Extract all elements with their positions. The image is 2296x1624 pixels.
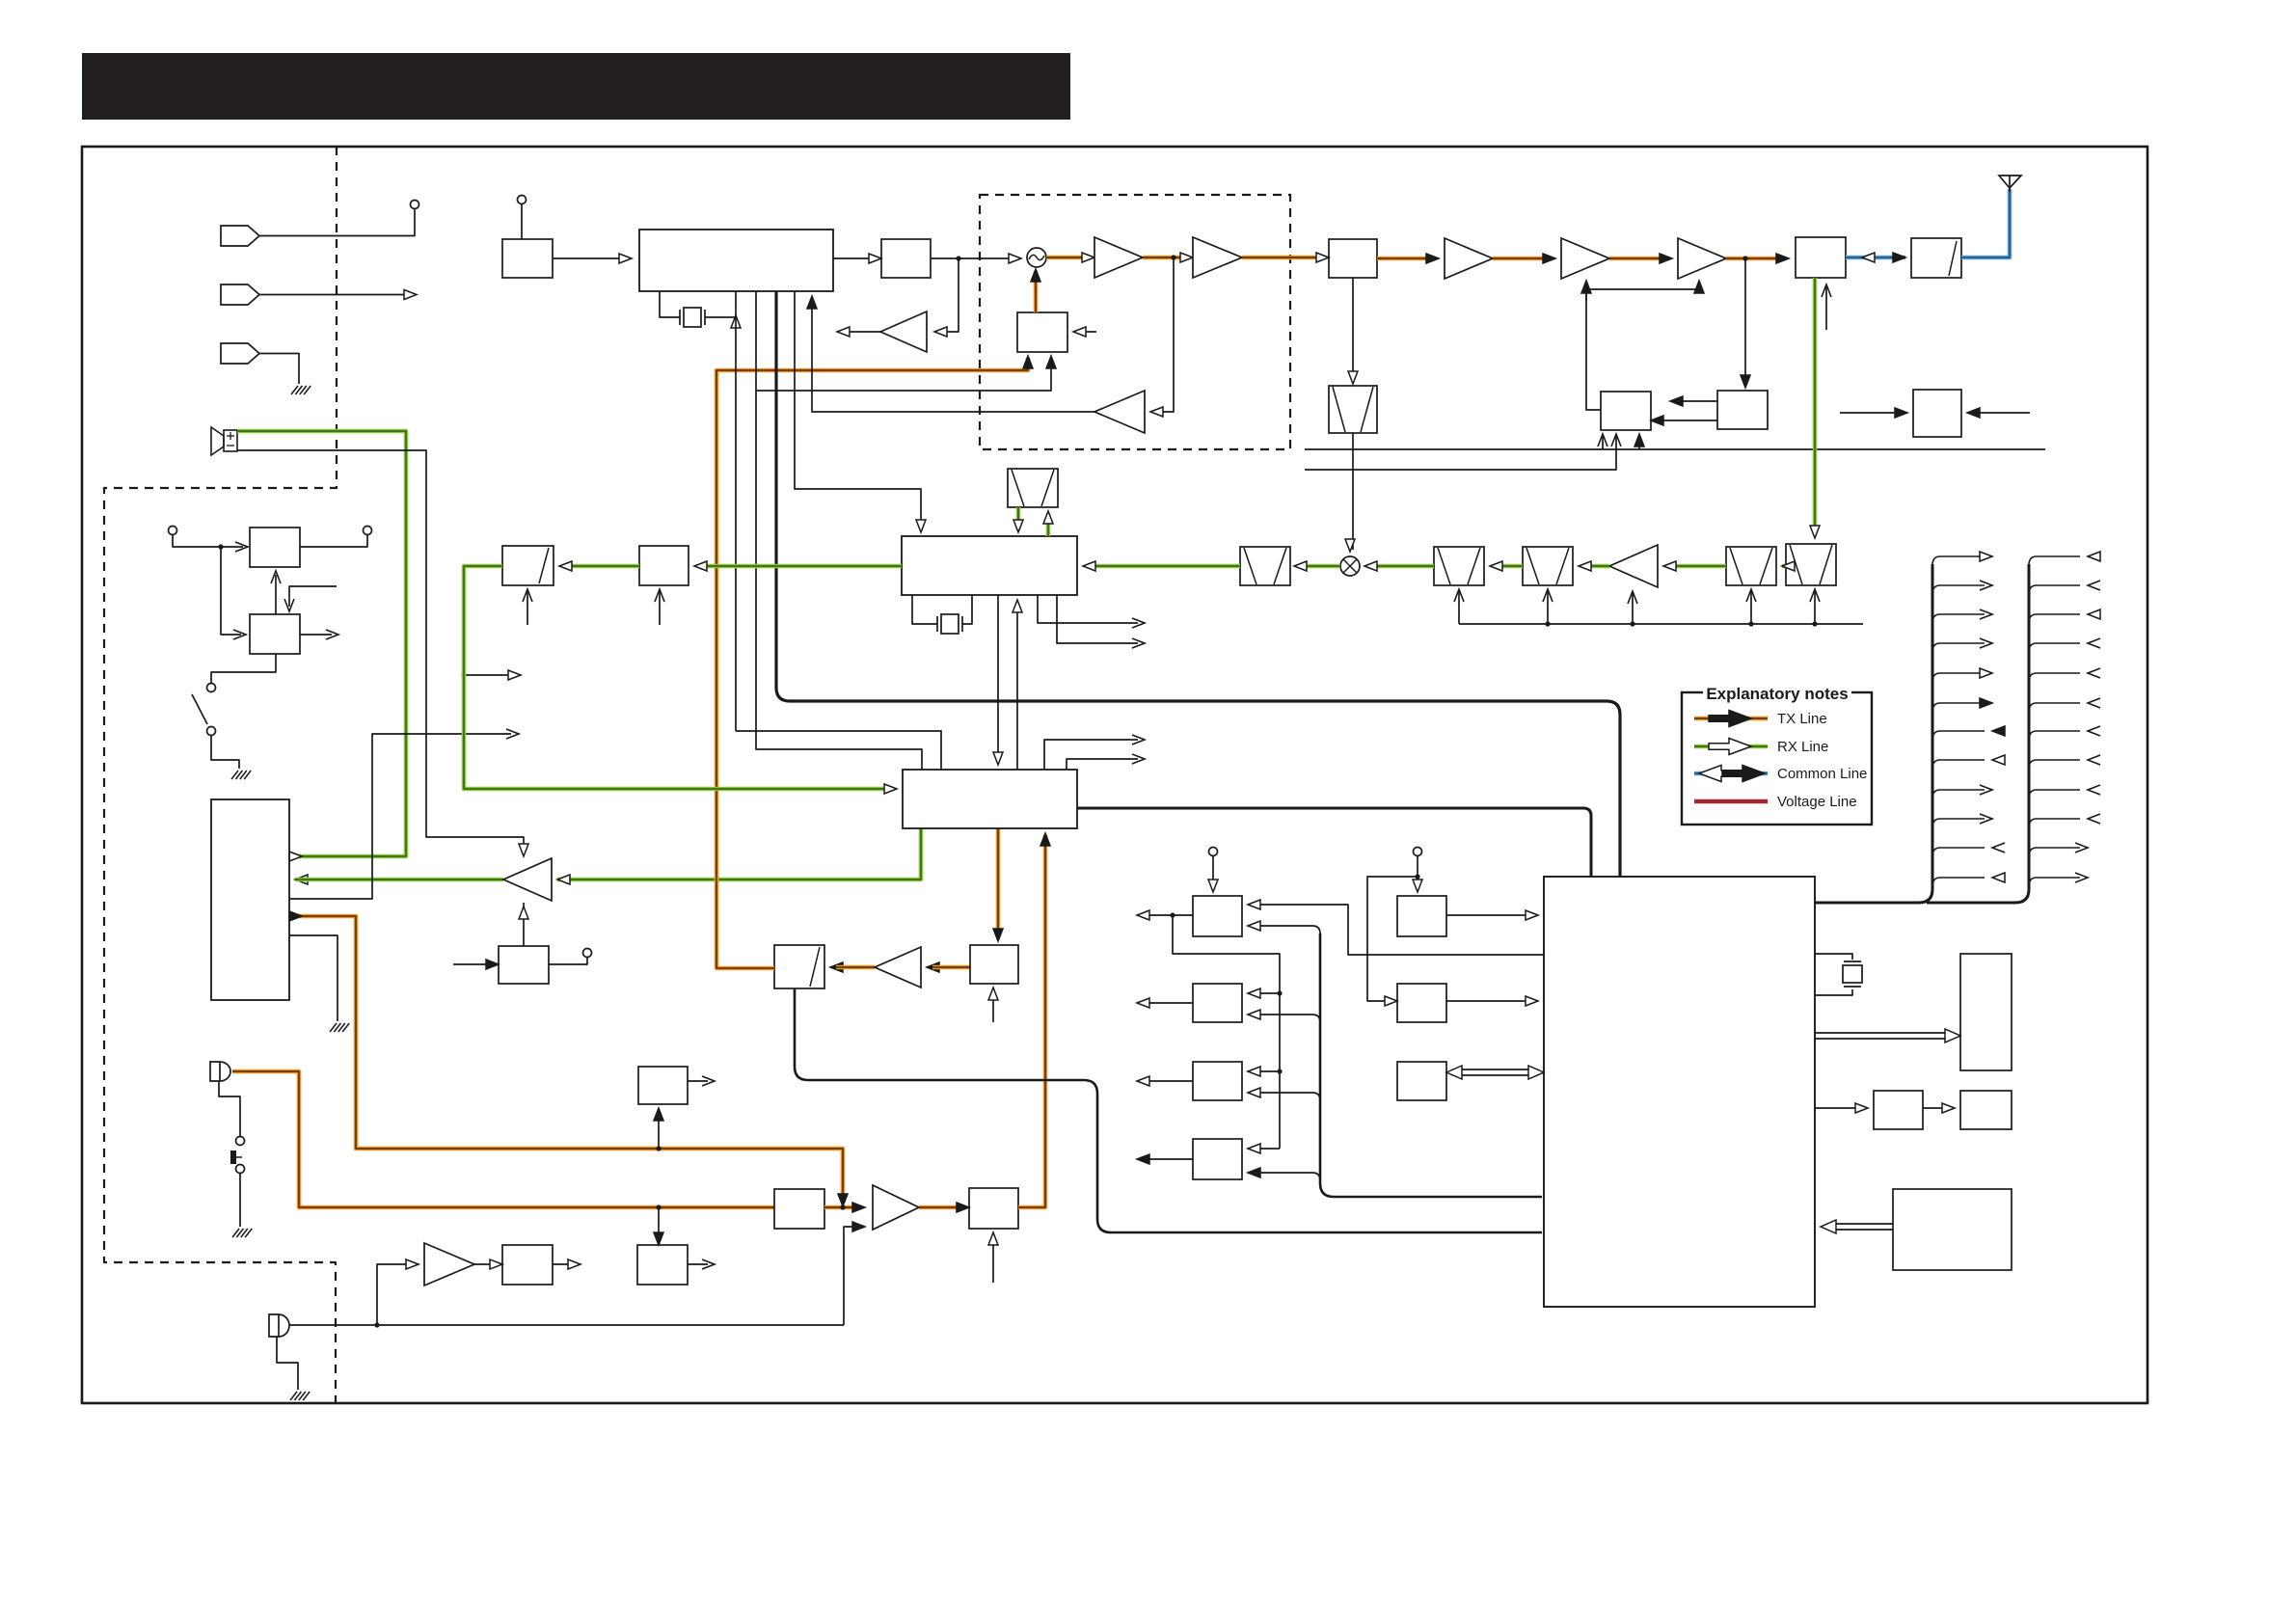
wire amp4 bias bbox=[1585, 283, 1587, 301]
box baseband U16 bbox=[903, 770, 1077, 828]
arrow limiter ctl bbox=[988, 1232, 998, 1245]
arrow beat into summer bbox=[852, 1222, 865, 1232]
arrow temp stub bbox=[1967, 408, 1980, 418]
arrow into monitor amp bbox=[934, 327, 947, 337]
box RX filterA (trapezoid) bbox=[1240, 547, 1290, 585]
wire mixer to filterA (green) bbox=[1302, 564, 1340, 569]
key bus branch L3 bbox=[1248, 1093, 1320, 1100]
junction TX sense bbox=[1171, 255, 1175, 259]
svg-text:Voltage Line: Voltage Line bbox=[1777, 794, 1857, 810]
wire buffer branch down bbox=[934, 258, 959, 332]
io bus left branch 8 bbox=[1932, 760, 1985, 769]
arrow volume in bbox=[486, 960, 499, 969]
amp4 bias arrow bbox=[1581, 281, 1591, 293]
box APC det U8b bbox=[1717, 391, 1768, 429]
wire beat from mic2 bbox=[844, 1227, 859, 1325]
wire limiter2 to mod amp (orange) bbox=[932, 965, 970, 970]
arrow DET stub bbox=[506, 729, 519, 739]
wire volume in bbox=[453, 963, 493, 965]
wire osc ctl (orange) bbox=[1034, 271, 1039, 312]
PTT button bbox=[230, 1150, 236, 1164]
ground CN3 bbox=[291, 386, 298, 394]
box reset R1 bbox=[1397, 896, 1446, 936]
amp1 triangle Q4 bbox=[1094, 237, 1143, 278]
io bus left branch 1 bbox=[1932, 556, 1985, 565]
wire crystal to v1 bbox=[705, 316, 736, 318]
oscillator OSC1 bbox=[1027, 248, 1046, 267]
arrow v2 into PLL ctl bbox=[1046, 356, 1056, 368]
arrow L1 out bbox=[1137, 910, 1149, 920]
terminal circle ref bbox=[518, 196, 527, 204]
junction bbox=[218, 544, 223, 549]
wire v2 main IC to baseband bbox=[756, 291, 922, 770]
io bus right branch 9 bbox=[2029, 790, 2080, 798]
wire main IC to crystal bbox=[660, 291, 680, 317]
junction dtmf on orange bbox=[656, 1204, 661, 1209]
terminal circle CN1 bbox=[411, 201, 419, 209]
arrow L2 out bbox=[1137, 998, 1149, 1008]
io bus left branch 5 bbox=[1932, 673, 1985, 682]
wire buffer to oscillator bbox=[931, 257, 1015, 259]
wire baseband to U18 (orange) bbox=[996, 828, 1001, 937]
arrow L4 out bbox=[1137, 1154, 1149, 1164]
wire monitor amp out bbox=[843, 331, 880, 333]
wire amp5 to TX out (orange) bbox=[1726, 257, 1783, 261]
wire IF det out (green) bbox=[700, 564, 902, 569]
arrow volume into driver bbox=[519, 907, 528, 919]
wire mic1 (orange TX audio) bbox=[232, 1071, 774, 1207]
arrow osc ctl bbox=[1031, 269, 1040, 282]
box limiter U21 bbox=[969, 1188, 1018, 1229]
crystal X2 bbox=[936, 616, 938, 632]
wire key dist to L3 bbox=[1277, 1069, 1282, 1073]
wire L3 out bbox=[1143, 1080, 1193, 1082]
wire osc to amp1 (orange) bbox=[1046, 256, 1089, 260]
arrow into TX out box bbox=[1776, 254, 1789, 263]
title bar bbox=[82, 53, 1070, 120]
io bus right branch 12 bbox=[2029, 878, 2080, 886]
arrow into amp1 bbox=[1082, 253, 1094, 262]
wire AF driver bottom to volume box bbox=[523, 903, 525, 946]
arrow U11 out bbox=[326, 630, 338, 639]
box volume U12 bbox=[499, 946, 549, 984]
box U11 bbox=[250, 614, 300, 654]
box mod filter U19 (slash) bbox=[774, 945, 824, 988]
arrow baseband to IF bbox=[1013, 600, 1022, 612]
io bus right branch 6 bbox=[2029, 703, 2080, 712]
wire to U11 bbox=[221, 547, 241, 635]
box RX filterB (trapezoid) bbox=[1434, 547, 1484, 585]
arrow into U22 bbox=[490, 1259, 502, 1269]
wire E to D (green) bbox=[1782, 564, 1786, 569]
box RX filterC (trapezoid) bbox=[1523, 547, 1573, 585]
microphone MC2 bbox=[269, 1314, 289, 1337]
arrow U18 ctl bbox=[988, 988, 998, 1000]
microphone MC1 bbox=[210, 1062, 230, 1081]
antenna ANT1 bbox=[1999, 176, 2021, 188]
arrow into filterB bbox=[1490, 561, 1502, 571]
wire key bus (thick) bbox=[1320, 934, 1542, 1197]
ground AF block bbox=[330, 1023, 337, 1032]
box LED bbox=[1960, 1091, 2012, 1129]
arrow into amp5 bbox=[1660, 254, 1672, 263]
wire CN2 out bbox=[259, 294, 409, 296]
legend Voltage line sample bbox=[1694, 799, 1768, 804]
wire L4 out bbox=[1143, 1158, 1193, 1160]
bus battery-CPU bbox=[1830, 1223, 1893, 1225]
wire TX sense down bbox=[1156, 257, 1174, 412]
RX 8V rail bbox=[1459, 623, 1863, 625]
wire amp2 to bpf (orange) bbox=[1242, 256, 1323, 260]
io bus right branch 4 bbox=[2029, 643, 2080, 652]
box temp sensor U8c bbox=[1913, 390, 1961, 437]
box U10 bbox=[250, 528, 300, 567]
arrow into mod amp bbox=[927, 962, 939, 972]
wire tone gen out bbox=[688, 1080, 708, 1082]
wire CPU to driver bbox=[1815, 1107, 1862, 1109]
arrow into filterC bbox=[1579, 561, 1591, 571]
wire APC det to amp 1 bbox=[1676, 400, 1717, 402]
box PLL ctl U4 bbox=[1017, 312, 1067, 352]
wire dtmf feed bbox=[658, 1207, 660, 1241]
switch S1 lever bbox=[192, 694, 207, 724]
arrow mute into AF amp bbox=[519, 844, 528, 856]
AF driver triangle Q30 bbox=[503, 858, 552, 901]
summing amp triangle Q21 bbox=[873, 1185, 919, 1230]
arrow into U11 bbox=[233, 630, 246, 639]
key bus branch L1 bbox=[1248, 926, 1320, 934]
arrow TX out ctl bbox=[1822, 284, 1831, 297]
arrow scan into L1 bbox=[1248, 900, 1260, 909]
wire amp to mod filter (orange) bbox=[836, 965, 875, 970]
box TX buffer U3 bbox=[881, 239, 931, 278]
wire switch to ground bbox=[211, 736, 239, 769]
svg-text:Explanatory notes: Explanatory notes bbox=[1706, 685, 1848, 703]
arrow into amp2 bbox=[1180, 253, 1193, 262]
terminal circle volume bbox=[583, 949, 592, 958]
wire TX out ctl bbox=[1825, 286, 1827, 330]
rail stub rx amp bbox=[1630, 621, 1634, 626]
box battery pack bbox=[1893, 1189, 2012, 1270]
legend title mask bbox=[1703, 683, 1851, 703]
arrow into filterD bbox=[1782, 561, 1795, 571]
arrow PLL ctl stub bbox=[1073, 327, 1086, 337]
arrow crystal junction bbox=[731, 315, 741, 328]
wire baseband out stub1 bbox=[1044, 740, 1138, 770]
junction L1 out bbox=[1170, 912, 1175, 917]
arrow PLL fb into main IC bbox=[807, 296, 817, 309]
wire main IC out bbox=[833, 257, 876, 259]
wire filterA to IF IC (green) bbox=[1089, 564, 1240, 569]
connector tag CN3 bbox=[221, 343, 259, 364]
wire IF crystal left bbox=[912, 595, 937, 624]
box RX filterE (trapezoid) bbox=[1786, 544, 1836, 585]
wire v4 main IC to IF top bbox=[795, 291, 921, 528]
amp5 bias arrow bbox=[1694, 281, 1704, 293]
arrow ctl into U11 bbox=[284, 599, 294, 611]
arrow monitor out bbox=[837, 327, 850, 337]
arrow up into U10 bbox=[271, 571, 281, 583]
rail stub filterE bbox=[1812, 621, 1817, 626]
arrow into rx filterE bbox=[1810, 526, 1820, 538]
wire RX audio to speaker (green) bbox=[237, 431, 406, 856]
amp3 triangle Q7 bbox=[1445, 238, 1493, 279]
wire R1 branch to R2 bbox=[1367, 877, 1418, 1001]
wire AF gnd pin bbox=[289, 935, 338, 1021]
wire into temp box bbox=[1840, 412, 1902, 414]
wire TX 8V rail a bbox=[1305, 448, 2045, 450]
wire limiter ctl bbox=[992, 1232, 994, 1283]
io bus right branch 2 bbox=[2029, 585, 2080, 594]
box AF power amp U9 bbox=[211, 799, 289, 1000]
io bus left branch 2 bbox=[1932, 585, 1985, 594]
io bus right branch 7 bbox=[2029, 731, 2080, 740]
box mic amp U20 bbox=[774, 1189, 824, 1229]
arrow R2 into CPU bbox=[1526, 996, 1538, 1006]
wire B to mixer (green) bbox=[1370, 564, 1434, 569]
wire amp4 to amp5 (orange) bbox=[1609, 257, 1666, 261]
wire PLL ctl stub bbox=[1073, 331, 1096, 333]
wire limiter to baseband (orange) bbox=[1018, 835, 1045, 1207]
wire mic2 branch up bbox=[377, 1264, 413, 1325]
arrow into dtmf bbox=[654, 1232, 663, 1245]
arrow APC a bbox=[1670, 396, 1683, 406]
wire amp3 to amp4 (orange) bbox=[1493, 257, 1550, 261]
wire driver to LED bbox=[1923, 1107, 1949, 1109]
wire L1 terminal bbox=[1212, 855, 1214, 890]
arrow dtmf out bbox=[702, 1259, 715, 1269]
arrow into main IC bbox=[619, 254, 632, 263]
tone amp triangle Q22 bbox=[424, 1243, 474, 1286]
junction MOD bbox=[840, 1204, 845, 1209]
io bus left branch 6 bbox=[1932, 703, 1985, 712]
arrow into IF amp2 bbox=[694, 561, 707, 571]
box key L3 bbox=[1193, 1062, 1242, 1100]
arrow into mixer h bbox=[1364, 561, 1377, 571]
legend RX line sample bbox=[1694, 744, 1768, 749]
wire PTT to ground bbox=[239, 1173, 241, 1227]
arrow mod into PLL ctl bbox=[1023, 356, 1033, 368]
arrow audio out bbox=[289, 852, 302, 861]
wire ref terminal bbox=[521, 203, 523, 239]
wire mic2 stem bbox=[277, 1337, 298, 1390]
connector tag CN2 bbox=[221, 284, 259, 305]
arrow det to baseband bbox=[884, 784, 897, 794]
arrow APC b bbox=[1651, 416, 1663, 425]
wire U22 out bbox=[553, 1263, 574, 1265]
wire baseband to CPU (thick) bbox=[1077, 808, 1591, 877]
io bus left branch 10 bbox=[1932, 819, 1985, 827]
arrow into AF driver bbox=[557, 875, 570, 884]
ground PTT bbox=[232, 1229, 239, 1237]
rail stub filterD bbox=[1748, 621, 1753, 626]
arrow MOD join bbox=[838, 1194, 848, 1206]
box TX shaping U18 bbox=[970, 945, 1018, 984]
arrow into IF IC bbox=[1083, 561, 1095, 571]
switch S1 contact a bbox=[207, 684, 216, 692]
wire DET out stub bbox=[289, 734, 511, 899]
arrow AF amp in (green RX) bbox=[295, 875, 308, 884]
wire amp1 to amp2 (orange) bbox=[1143, 256, 1187, 260]
svg-text:Common Line: Common Line bbox=[1777, 766, 1867, 782]
ground S1 bbox=[231, 771, 238, 779]
wire mic1 stem bbox=[219, 1081, 240, 1136]
io bus right branch 8 bbox=[2029, 760, 2080, 769]
arrow MOD out of AF block bbox=[289, 911, 302, 921]
legend box bbox=[1682, 692, 1872, 825]
junction bias bbox=[1583, 286, 1588, 291]
wire TL2 to U10 bbox=[300, 535, 367, 547]
wire CN3 to ground bbox=[259, 354, 299, 385]
PLL buffer triangle Q6 bbox=[1094, 391, 1145, 433]
arrow CF1 down bbox=[1013, 520, 1023, 532]
wire v2 branch to PLL ctl bbox=[756, 358, 1051, 391]
arrow L3 out bbox=[1137, 1076, 1149, 1086]
arrow IF stub2 bbox=[1132, 638, 1145, 648]
box main TX/RX IC U1 bbox=[639, 230, 833, 291]
wire v1 main IC to baseband bbox=[735, 291, 737, 731]
junction tone on orange bbox=[656, 1146, 661, 1150]
arrow into oscillator bbox=[1009, 254, 1021, 263]
arrow into tone gen bbox=[654, 1108, 663, 1121]
wire CPU scan to L1 bbox=[1248, 905, 1544, 955]
arrow L1 top bbox=[1208, 880, 1218, 892]
arrow IF stub1 bbox=[1132, 618, 1145, 628]
io bus left branch 4 bbox=[1932, 643, 1985, 652]
bus CPU-LCD bbox=[1815, 1032, 1950, 1034]
box U22 bbox=[502, 1245, 553, 1285]
rail stub filterC bbox=[1545, 621, 1550, 626]
PTT contact a bbox=[236, 1137, 245, 1146]
wire R2 to CPU bbox=[1446, 1000, 1538, 1002]
arrow IF to baseband bbox=[993, 752, 1003, 765]
arrow into VCO bbox=[1348, 371, 1358, 384]
arrow CN2 bbox=[404, 290, 417, 300]
junction R1 bbox=[1415, 874, 1419, 879]
terminal circle R1 bbox=[1414, 848, 1422, 856]
wire baseband out stub2 bbox=[1067, 759, 1138, 770]
arrow into amp3 bbox=[1426, 254, 1439, 263]
wire v3 main IC to CPU (thick) bbox=[776, 291, 1620, 877]
arrow into APC det bbox=[1741, 375, 1750, 388]
wire tone amp to U22 bbox=[474, 1263, 497, 1265]
wire U11 out bbox=[300, 634, 332, 636]
arrow into mixer bbox=[1345, 539, 1355, 552]
amp2 triangle Q5 bbox=[1193, 237, 1242, 278]
box ceramic filter CF1 (trapezoid) bbox=[1008, 469, 1058, 507]
box antenna switch U7 (slash) bbox=[1911, 238, 1961, 278]
wire baseband to IF bbox=[1016, 602, 1018, 770]
wire ref to main IC bbox=[553, 257, 626, 259]
monitor amp triangle Q3 bbox=[880, 311, 927, 352]
ground MC2 bbox=[290, 1392, 297, 1400]
wire R1 terminal bbox=[1417, 855, 1418, 890]
rail a stub thin bbox=[1602, 436, 1604, 449]
wire TL1 to U10 bbox=[173, 535, 243, 547]
terminal circle TL2 bbox=[364, 527, 372, 535]
squelch stub from RX line bbox=[461, 672, 466, 677]
io bus left branch 9 bbox=[1932, 790, 1985, 798]
arrow into det bbox=[559, 561, 572, 571]
wire mic2 bbox=[289, 1324, 844, 1326]
io bus left branch 3 bbox=[1932, 614, 1985, 623]
box key L1 bbox=[1193, 896, 1242, 936]
box ref divider U2 bbox=[502, 239, 553, 278]
junction APC bbox=[1742, 256, 1747, 260]
wire APC sense down bbox=[1744, 258, 1746, 384]
RX amp triangle Q10 bbox=[1609, 545, 1658, 587]
wire bpf to amp3 (orange) bbox=[1377, 257, 1433, 261]
arrow into mod filter bbox=[830, 962, 843, 972]
arrow common left bbox=[1862, 253, 1875, 262]
box APC amp U8a bbox=[1601, 392, 1651, 430]
arrow TX audio into baseband bbox=[1040, 833, 1050, 846]
io bus right branch 5 bbox=[2029, 673, 2080, 682]
box CPU U30 bbox=[1544, 877, 1815, 1307]
wire VCO to mixer bbox=[1352, 433, 1354, 550]
terminal circle TL1 bbox=[169, 527, 177, 535]
U14 bias stub bbox=[659, 591, 661, 625]
arrow into rx amp bbox=[1663, 561, 1676, 571]
arrow v4 into IF bbox=[916, 520, 926, 532]
wire CPU crystal bottom bbox=[1815, 989, 1852, 995]
wire IF out stub1 bbox=[1038, 595, 1138, 623]
wire IF to CF1 (green) bbox=[1016, 507, 1021, 530]
arrow into driver bbox=[1855, 1103, 1868, 1113]
rail stub filterB bbox=[1458, 591, 1460, 624]
arrow into limiter bbox=[957, 1203, 969, 1212]
io bus left branch 12 bbox=[1932, 878, 1985, 886]
rail a stub filled bbox=[1638, 440, 1640, 449]
junction mic2 bbox=[374, 1322, 379, 1327]
wire ant switch to antenna (blue) bbox=[1961, 189, 2010, 257]
wire CPU crystal top bbox=[1815, 954, 1852, 960]
arrow into LED bbox=[1942, 1103, 1955, 1113]
legend TX line sample bbox=[1694, 717, 1768, 721]
box reset R2 bbox=[1397, 984, 1446, 1022]
wire key dist to L4 bbox=[1248, 1148, 1280, 1150]
io bus left branch 7 bbox=[1932, 731, 1985, 740]
wire volume out to terminal bbox=[549, 958, 587, 964]
wire D to rx amp (green) bbox=[1669, 564, 1726, 569]
key bus branch L2 bbox=[1248, 1015, 1320, 1022]
wire PLL fb into main IC bbox=[812, 299, 1094, 412]
svg-text:RX Line: RX Line bbox=[1777, 739, 1828, 755]
arrow into tone amp bbox=[406, 1259, 419, 1269]
connector tag CN1 bbox=[221, 226, 259, 246]
arrow into bpf bbox=[1316, 253, 1329, 262]
arrow into summing amp bbox=[852, 1203, 865, 1212]
wire bias down to APC box bbox=[1586, 289, 1601, 410]
speaker SP1 bbox=[211, 427, 224, 455]
bus R3-CPU bbox=[1452, 1069, 1538, 1070]
arrow into PLL buffer bbox=[1150, 407, 1163, 417]
box DTMF U24 bbox=[637, 1245, 688, 1285]
wire bpf to VCO bbox=[1352, 278, 1354, 378]
wire CPU io bus (thick) bbox=[1815, 564, 1932, 903]
wire IF crystal right bbox=[962, 595, 972, 624]
arrow into U10 bbox=[235, 542, 248, 552]
io bus right branch 3 bbox=[2029, 614, 2080, 623]
wire RX audio into AF amp (green) bbox=[557, 828, 921, 880]
wire APC det to amp 2 bbox=[1657, 420, 1717, 421]
arrow tone gen out bbox=[702, 1076, 715, 1086]
io bus right branch 11 bbox=[2029, 848, 2080, 856]
arrow into amp4 bbox=[1543, 254, 1555, 263]
det bias stub bbox=[527, 591, 528, 625]
wire TX 8V rail b bbox=[1305, 436, 1616, 470]
arrow R1 top bbox=[1413, 880, 1422, 892]
